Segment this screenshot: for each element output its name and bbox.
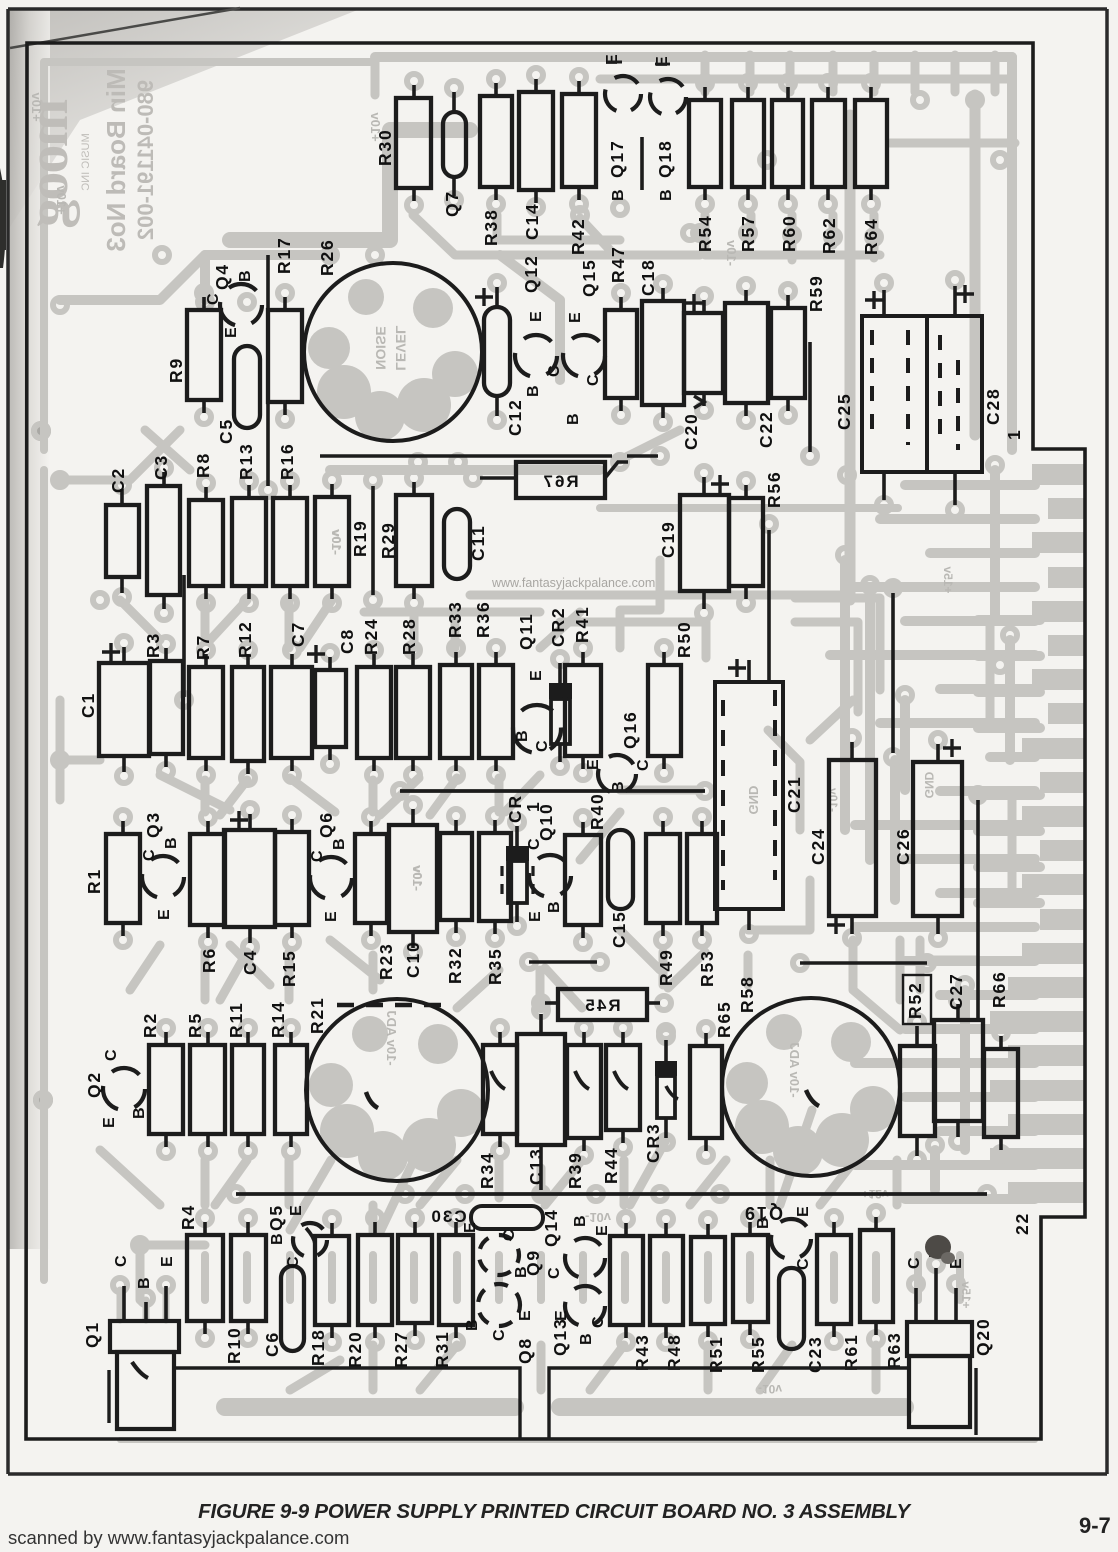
svg-text:R43: R43 (632, 1333, 652, 1371)
svg-text:Q11: Q11 (516, 612, 536, 650)
capacitor C4 (224, 830, 275, 927)
svg-text:B: B (237, 270, 254, 282)
svg-text:C19: C19 (658, 520, 678, 558)
resistor R15 (275, 832, 309, 925)
svg-text:R9: R9 (166, 357, 186, 383)
resistor R2 (149, 1045, 183, 1134)
resistor R61 (817, 1235, 851, 1324)
filter capacitor (-10v ADJ can, left) (306, 999, 488, 1181)
resistor R44 (606, 1045, 640, 1130)
plus mark C4 (230, 811, 248, 829)
transistor Q19 (771, 1219, 811, 1259)
svg-text:C5: C5 (216, 418, 236, 444)
resistor R62 (812, 100, 845, 187)
svg-text:R18: R18 (308, 1328, 328, 1366)
svg-text:C20: C20 (681, 412, 701, 450)
svg-text:R21: R21 (307, 996, 327, 1034)
svg-text:NOISE: NOISE (373, 326, 389, 370)
svg-text:B: B (755, 1217, 772, 1229)
wire jumper W5 (320, 454, 612, 457)
capacitor C7 (271, 667, 312, 758)
resistor R53 (687, 834, 717, 923)
svg-text:C: C (635, 759, 652, 771)
svg-text:C22: C22 (756, 410, 776, 448)
wire jumper W7 (767, 530, 771, 682)
resistor R60 (772, 100, 803, 187)
svg-text:R38: R38 (481, 208, 501, 246)
capacitor C23 (779, 1268, 804, 1349)
svg-text:R56: R56 (764, 470, 784, 508)
svg-text:Q14: Q14 (541, 1209, 561, 1247)
svg-text:C: C (309, 850, 326, 862)
svg-text:E: E (223, 327, 240, 338)
wire jumper W6 (182, 575, 186, 697)
resistor R45 (jumper style) (558, 989, 647, 1020)
svg-text:C28: C28 (983, 387, 1003, 425)
svg-text:E: E (528, 311, 545, 322)
svg-text:B: B (464, 1319, 481, 1331)
svg-text:E: E (795, 1206, 812, 1217)
svg-text:R39: R39 (565, 1151, 585, 1189)
capacitor C13 (517, 1034, 565, 1145)
resistor R55 (733, 1235, 768, 1322)
resistor R66 (984, 1049, 1018, 1137)
resistor R1 (106, 834, 140, 923)
svg-text:C18: C18 (638, 258, 658, 296)
svg-text:22: 22 (1012, 1212, 1032, 1235)
plus mark C26 (943, 739, 961, 757)
capacitor C24 (829, 760, 876, 916)
svg-text:B: B (572, 1215, 589, 1227)
resistor R39 (567, 1045, 601, 1138)
resistor R17 (268, 310, 302, 402)
svg-text:Q3: Q3 (143, 811, 163, 838)
svg-text:C12: C12 (505, 398, 525, 436)
capacitor C2 (106, 505, 139, 577)
svg-text:R5: R5 (185, 1012, 205, 1038)
svg-text:R23: R23 (376, 942, 396, 980)
svg-text:R33: R33 (445, 600, 465, 638)
svg-text:C: C (285, 1256, 302, 1268)
transistor Q16 (598, 755, 636, 793)
svg-text:GND: GND (922, 771, 936, 798)
svg-text:R65: R65 (714, 1000, 734, 1038)
plus mark C24 (827, 916, 845, 934)
resistor R54 (689, 100, 721, 187)
ink smudge (925, 1235, 951, 1259)
svg-text:B: B (658, 189, 675, 201)
svg-text:C: C (590, 1316, 607, 1328)
resistor R29 (396, 495, 432, 586)
wire jumper W12 (long horizontal) (400, 789, 705, 793)
svg-text:B: B (163, 837, 180, 849)
capacitor C18 (642, 301, 684, 405)
capacitor C19 (680, 495, 729, 591)
svg-text:R13: R13 (236, 442, 256, 480)
svg-text:Q6: Q6 (316, 811, 336, 838)
svg-text:R24: R24 (361, 617, 381, 655)
svg-text:B: B (610, 189, 627, 201)
power transistor Q20 (907, 1322, 972, 1356)
svg-text:R42: R42 (568, 217, 588, 255)
resistor R24 (357, 667, 391, 758)
svg-text:R48: R48 (664, 1333, 684, 1371)
svg-text:www.fantasyjackpalance.com: www.fantasyjackpalance.com (491, 576, 655, 590)
svg-text:-10v ADJ: -10v ADJ (787, 1042, 802, 1097)
svg-text:Q18: Q18 (655, 140, 675, 178)
capacitor C5 (234, 346, 260, 428)
svg-text:Q8: Q8 (515, 1337, 535, 1364)
lead C13 (539, 1014, 543, 1034)
svg-text:R8: R8 (193, 452, 213, 478)
transistor Q8 (478, 1284, 520, 1326)
resistor R21 (hidden, dashed) (337, 1003, 449, 1008)
resistor R16 (273, 498, 307, 586)
svg-text:B: B (525, 385, 542, 397)
svg-text:C2: C2 (108, 467, 128, 493)
svg-text:+10v: +10v (29, 92, 44, 122)
svg-text:E: E (528, 670, 545, 681)
svg-text:R64: R64 (861, 217, 881, 255)
capacitor C12 (484, 307, 510, 396)
svg-text:R4: R4 (178, 1204, 198, 1230)
svg-text:R26: R26 (317, 238, 337, 276)
resistor R56 (729, 498, 763, 586)
capacitor C10 (389, 825, 437, 932)
resistor R6 (190, 834, 225, 925)
svg-text:Q10: Q10 (536, 803, 556, 841)
wire jumper W8 (891, 593, 895, 753)
resistor R40 (565, 835, 601, 925)
wire jumper W4 (371, 486, 375, 595)
svg-text:R3: R3 (143, 632, 163, 658)
svg-text:C26: C26 (893, 827, 913, 865)
svg-text:B: B (565, 413, 582, 425)
capacitor C27 (934, 1020, 983, 1121)
resistor R28 (396, 667, 430, 758)
svg-text:B: B (546, 901, 563, 913)
svg-text:C24: C24 (808, 827, 828, 865)
svg-text:E: E (517, 1310, 534, 1321)
svg-text:+15v: +15v (959, 1281, 973, 1308)
svg-text:C: C (103, 1049, 120, 1061)
svg-text:C13: C13 (526, 1147, 546, 1185)
svg-text:C: C (906, 1257, 923, 1269)
svg-text:B: B (331, 838, 348, 850)
svg-text:R31: R31 (432, 1330, 452, 1368)
svg-text:C: C (546, 365, 563, 377)
resistor R64 (855, 100, 887, 187)
svg-text:CR: CR (505, 794, 525, 823)
svg-text:R28: R28 (399, 617, 419, 655)
solder pads (407, 74, 421, 88)
svg-text:9-7: 9-7 (1079, 1513, 1111, 1538)
svg-text:E: E (156, 909, 173, 920)
diode CR2 (549, 683, 572, 699)
resistor R12 (232, 667, 264, 761)
svg-text:C8: C8 (337, 628, 357, 654)
diode CR3 (655, 1061, 677, 1076)
wire jumper W9 (976, 800, 980, 1020)
svg-text:C: C (501, 1229, 518, 1241)
svg-text:R59: R59 (806, 274, 826, 312)
capacitor C28 (940, 335, 958, 450)
svg-text:C: C (491, 1329, 508, 1341)
svg-text:R49: R49 (656, 948, 676, 986)
resistor R9 (187, 310, 221, 400)
resistor R33 (440, 665, 472, 758)
resistor R10 (231, 1235, 266, 1321)
wire jumper W13 (long horizontal) (236, 1192, 987, 1196)
resistor R59 (771, 308, 805, 398)
transistor Q15 (563, 335, 605, 377)
svg-text:E: E (567, 312, 584, 323)
transistor Q7 (443, 112, 466, 177)
svg-text:C4: C4 (240, 949, 260, 975)
resistor R32 (440, 833, 472, 920)
diode CR1 (506, 846, 529, 861)
power transistor Q1 (110, 1321, 179, 1352)
svg-text:C: C (526, 838, 543, 850)
svg-text:R52: R52 (905, 981, 925, 1019)
svg-text:R11: R11 (226, 1001, 246, 1038)
transistor Q18 (650, 79, 686, 115)
resistor R63 (860, 1230, 893, 1322)
resistor R52 (900, 1046, 935, 1136)
transistor Q14 (565, 1238, 605, 1278)
svg-text:R54: R54 (695, 214, 715, 252)
svg-text:C25: C25 (834, 392, 854, 430)
resistor R50 (648, 665, 681, 756)
svg-text:+10v: +10v (54, 185, 69, 215)
resistor R13 (232, 498, 266, 586)
capacitor C20 (684, 313, 723, 393)
svg-text:E: E (101, 1117, 118, 1128)
filter capacitor (-10v ADJ can, right) (722, 998, 900, 1176)
svg-text:C3: C3 (151, 454, 171, 480)
resistor R11 (232, 1045, 264, 1134)
svg-text:C7: C7 (288, 621, 308, 647)
bottom mounting outline (174, 1368, 976, 1438)
plus mark C1 (102, 643, 120, 661)
resistor R38 (480, 96, 512, 187)
svg-text:E: E (585, 759, 602, 770)
plus mark C18 (685, 294, 703, 312)
svg-text:R35: R35 (485, 947, 505, 985)
resistor R51 (691, 1237, 725, 1324)
transistor Q13 (565, 1286, 605, 1326)
capacitor C8 (315, 670, 346, 747)
wire jumper W1 (640, 137, 644, 190)
svg-text:C: C (141, 849, 158, 861)
svg-text:R50: R50 (674, 620, 694, 658)
capacitor C3 (147, 486, 180, 595)
wire jumper W2 (266, 255, 270, 486)
svg-text:-10v: -10v (724, 239, 739, 266)
svg-text:-10v: -10v (585, 1210, 612, 1225)
svg-text:R19: R19 (350, 519, 370, 557)
svg-text:R63: R63 (884, 1331, 904, 1369)
svg-text:moog: moog (15, 98, 80, 227)
svg-text:R14: R14 (268, 1000, 288, 1038)
resistor R23 (355, 834, 387, 923)
capacitor C22 (725, 303, 768, 403)
wire jumper W3 (808, 342, 812, 452)
transistor Q6 (310, 857, 352, 899)
wire jumper W11 (529, 960, 597, 963)
capacitor C6 (281, 1266, 304, 1351)
svg-text:Q1: Q1 (82, 1321, 102, 1348)
capacitor C1 (99, 663, 149, 756)
svg-text:C6: C6 (262, 1331, 282, 1357)
svg-text:FIGURE 9-9 POWER SUPPLY PRINTE: FIGURE 9-9 POWER SUPPLY PRINTED CIRCUIT … (198, 1500, 912, 1523)
svg-text:B: B (578, 1333, 595, 1345)
svg-text:R17: R17 (274, 236, 294, 274)
capacitor C25 (862, 316, 982, 472)
svg-text:E: E (462, 1222, 479, 1233)
svg-text:Min Board No3: Min Board No3 (101, 68, 131, 251)
resistor R35 (479, 833, 511, 921)
svg-text:R53: R53 (697, 949, 717, 987)
svg-text:MUSIC INC: MUSIC INC (80, 133, 92, 191)
svg-text:Q4: Q4 (212, 263, 232, 290)
C20 pointer tick (694, 396, 704, 408)
svg-text:+15v: +15v (941, 566, 955, 593)
svg-text:scanned by www.fantasyjackpala: scanned by www.fantasyjackpalance.com (8, 1527, 349, 1548)
svg-text:-10v: -10v (329, 528, 344, 555)
svg-text:B: B (136, 1277, 153, 1289)
svg-text:980-041191-002: 980-041191-002 (133, 80, 158, 240)
svg-text:Q16: Q16 (620, 711, 640, 749)
resistor R4 (187, 1235, 223, 1321)
capacitor C26 (913, 762, 962, 916)
svg-text:C15: C15 (609, 910, 629, 948)
transistor Q3 (142, 856, 184, 898)
resistor R19 (315, 497, 349, 586)
transistor Q2 (103, 1068, 145, 1110)
svg-text:C: C (546, 1267, 563, 1279)
resistor R67 (jumper style) (516, 462, 605, 498)
svg-text:R1: R1 (84, 868, 104, 894)
resistor R41 (565, 665, 601, 756)
resistor R65 (690, 1046, 722, 1138)
transistor Q9 (479, 1235, 519, 1275)
svg-text:R67: R67 (541, 472, 578, 491)
svg-text:E: E (553, 1310, 570, 1321)
svg-text:R57: R57 (738, 214, 758, 252)
svg-text:C: C (534, 740, 551, 752)
svg-text:C: C (205, 293, 222, 305)
svg-text:B: B (131, 1107, 148, 1119)
transistor Q17 (605, 76, 641, 112)
resistor R7 (189, 667, 223, 758)
copper trace network (44, 62, 370, 450)
svg-text:R2: R2 (140, 1012, 160, 1038)
capacitor C21 (GND block) (715, 682, 783, 909)
svg-text:R7: R7 (193, 634, 213, 660)
svg-text:C11: C11 (468, 524, 488, 561)
svg-text:R41: R41 (572, 605, 592, 643)
svg-text:R32: R32 (445, 946, 465, 984)
svg-text:E: E (159, 1256, 176, 1267)
svg-text:R12: R12 (235, 620, 255, 658)
svg-text:R34: R34 (477, 1151, 497, 1189)
svg-text:-10v ADJ: -10v ADJ (384, 1010, 399, 1065)
svg-text:R27: R27 (391, 1330, 411, 1368)
capacitor C15 (608, 830, 633, 909)
plus mark C7 (307, 645, 325, 663)
resistor R47 (605, 310, 637, 398)
svg-text:GND: GND (746, 786, 761, 815)
resistor R30 (396, 98, 431, 188)
svg-text:R6: R6 (199, 947, 219, 973)
svg-text:R44: R44 (601, 1146, 621, 1184)
resistor R57 (732, 100, 764, 187)
resistor R49 (646, 834, 680, 923)
svg-text:LEVEL: LEVEL (393, 325, 409, 371)
svg-text:C14: C14 (522, 202, 542, 240)
svg-text:Q20: Q20 (973, 1318, 993, 1356)
svg-text:C1: C1 (78, 692, 98, 718)
svg-text:R16: R16 (277, 442, 297, 480)
svg-text:R29: R29 (378, 521, 398, 559)
svg-text:R36: R36 (473, 600, 493, 638)
svg-text:C27: C27 (946, 972, 966, 1010)
silkscreen show-through lettering (15, 98, 92, 227)
resistor R43 (610, 1236, 643, 1325)
transistor Q5 (293, 1223, 327, 1257)
resistor R48 (650, 1236, 683, 1325)
svg-text:R20: R20 (345, 1330, 365, 1368)
resistor R27 (398, 1235, 432, 1323)
svg-text:Q9: Q9 (523, 1249, 543, 1276)
resistor R20 (358, 1235, 392, 1325)
transistor Q4 (220, 284, 262, 326)
transistor Q12 (515, 335, 557, 377)
svg-text:C: C (113, 1255, 130, 1267)
resistor R3 (150, 661, 183, 754)
svg-text:R62: R62 (819, 216, 839, 254)
resistor R36 (479, 665, 513, 758)
svg-text:R40: R40 (587, 792, 607, 830)
svg-text:R15: R15 (279, 949, 299, 987)
svg-text:Q12: Q12 (521, 255, 541, 293)
svg-text:1: 1 (1004, 428, 1024, 440)
capacitor C14 (519, 92, 553, 190)
svg-text:-10v: -10v (410, 864, 425, 891)
svg-text:E: E (527, 911, 544, 922)
svg-text:R47: R47 (608, 245, 628, 283)
svg-text:Q17: Q17 (607, 140, 627, 178)
transistor Q11 (513, 705, 561, 753)
svg-text:Q13: Q13 (550, 1318, 570, 1356)
svg-text:R61: R61 (841, 1333, 861, 1371)
filter capacitor (NOISE/LEVEL can) (304, 263, 482, 441)
resistor R34 (483, 1045, 517, 1134)
svg-text:B: B (269, 1233, 286, 1245)
plus mark C19 (711, 475, 729, 493)
capacitor C11 (444, 509, 470, 579)
transistor Q10 (529, 855, 571, 897)
svg-text:-10v: -10v (758, 1382, 782, 1396)
svg-text:C10: C10 (403, 940, 423, 978)
resistor R5 (190, 1045, 225, 1134)
resistor R14 (275, 1045, 307, 1134)
svg-text:CR3: CR3 (643, 1123, 663, 1163)
svg-text:Q7: Q7 (442, 190, 462, 217)
wire jumper W10 (800, 961, 927, 964)
resistor R42 (562, 94, 596, 187)
